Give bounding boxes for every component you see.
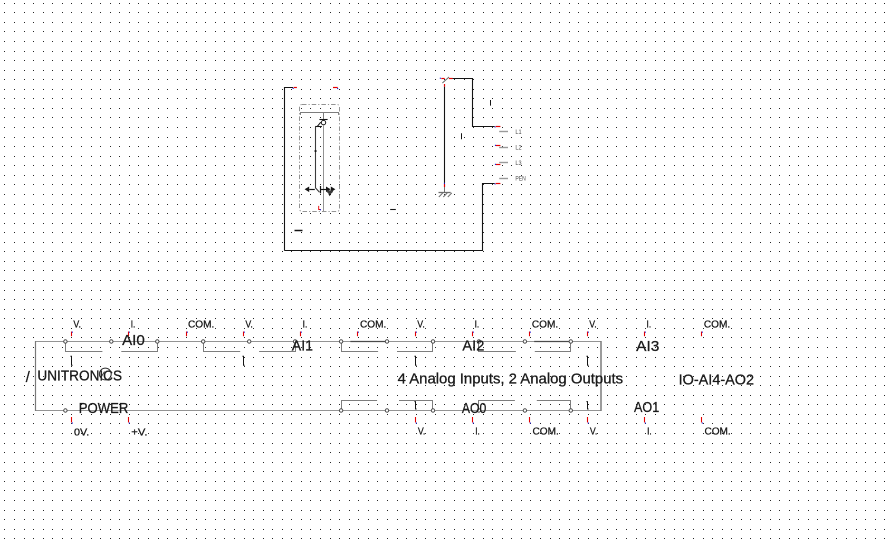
connection point top 9 [530, 332, 531, 337]
connection point top 10 [588, 332, 589, 337]
svg-text:L3: L3 [515, 160, 522, 167]
ground (earth symbol) [439, 193, 452, 198]
svg-text:V.: V. [590, 427, 598, 438]
svg-text:AI2: AI2 [462, 339, 484, 355]
node dot blue W3 start [440, 78, 441, 79]
svg-text:COM.: COM. [188, 319, 214, 330]
svg-text:I.: I. [131, 319, 136, 330]
dark wire segment AI2 [350, 341, 386, 343]
connection point top 5 [301, 332, 302, 337]
connection point top 12 [702, 332, 703, 337]
wire W4 earth drop [444, 87, 446, 183]
breaker enclosure Q1 (dash-dot box) [300, 105, 340, 212]
node stub red W3 end [496, 126, 501, 128]
pin node top 7 [339, 340, 342, 343]
net label L3 [495, 160, 522, 167]
svg-text:COM.: COM. [533, 427, 559, 438]
terminal bracket AO0 right [399, 401, 433, 410]
terminal bracket AI0 right [121, 343, 157, 352]
node stub red R2 [333, 87, 338, 89]
svg-text:AO1: AO1 [634, 400, 659, 416]
svg-text:I.: I. [647, 319, 652, 330]
node dot blue R2 [337, 88, 338, 89]
connection point top 7 [416, 332, 417, 337]
pin node top 9 [431, 340, 434, 343]
label L blue dot [320, 209, 321, 210]
pin designator tick top 7 [414, 356, 416, 365]
connection point bottom COM. [702, 417, 703, 424]
svg-text:UNITRONICS: UNITRONICS [37, 368, 122, 384]
module outline bottom edge [35, 410, 602, 412]
lever top bar [315, 126, 322, 128]
node stub red W3 right [449, 78, 453, 80]
tick I lower [461, 133, 463, 139]
connection point bottom I. [645, 417, 646, 424]
wire W3 L1 feed [453, 79, 495, 127]
terminal bracket AI3 right [535, 343, 571, 352]
svg-text:AO0: AO0 [462, 401, 486, 417]
pin node bottom 1 [339, 409, 342, 412]
connection point bottom V. [416, 417, 417, 424]
connection point bottom V. [588, 417, 589, 424]
pivot circle [321, 120, 325, 124]
terminal bracket AI1 right [259, 343, 295, 352]
svg-text:V.: V. [73, 319, 81, 330]
pin node top 8 [385, 340, 388, 343]
module outline top edge [35, 341, 602, 343]
svg-text:POWER: POWER [79, 401, 129, 417]
pin node bottom 2 [385, 409, 388, 412]
net label PEN [499, 175, 526, 182]
pin node top 3 [156, 340, 159, 343]
connection point bottom COM. [530, 417, 531, 424]
connection point bottom I. [473, 417, 474, 424]
node dot blue W2 end [495, 183, 496, 184]
svg-text:AI1: AI1 [292, 339, 313, 355]
pin node top 4 [202, 340, 205, 343]
connection point top 1 [72, 332, 73, 337]
svg-text:0V.: 0V. [74, 428, 89, 439]
node stub red W2 end [496, 183, 501, 185]
terminal bracket AI3 left [479, 343, 516, 352]
pin node top 12 [569, 340, 572, 343]
svg-text:L2: L2 [515, 145, 522, 152]
pin node top 2 [110, 340, 113, 343]
terminal bracket AO1 right [537, 401, 571, 410]
node dot blue W3 end [495, 126, 496, 127]
pin designator tick top 1 [70, 356, 72, 365]
connection point top 2 [129, 332, 130, 337]
pin node top 11 [523, 340, 526, 343]
node stub red W4 bottom [444, 184, 446, 187]
junction slash [442, 77, 449, 83]
contact slash [317, 122, 321, 126]
net label L1 [499, 129, 522, 136]
wire W1 feed corner [285, 88, 294, 251]
svg-text:4 Analog Inputs, 2 Analog Outp: 4 Analog Inputs, 2 Analog Outputs [398, 371, 623, 387]
pin designator tick bottom 10 [586, 402, 588, 409]
pin node top 5 [248, 340, 251, 343]
bus staple [301, 113, 339, 115]
pin node top 10 [477, 340, 480, 343]
pin designator tick bottom 7 [414, 402, 416, 409]
dash mark right [390, 209, 396, 211]
pin designator tick top 4 [242, 356, 244, 365]
lever arm [316, 126, 320, 192]
connection point top 4 [244, 332, 245, 337]
pin node bottom 3 [431, 409, 434, 412]
node stub red R1 [294, 87, 297, 89]
pin node top 1 [64, 340, 67, 343]
terminal bracket AO1 left [479, 401, 515, 410]
connection point top 6 [358, 332, 359, 337]
node stub red W4 top [444, 84, 446, 87]
svg-text:V.: V. [589, 319, 597, 330]
connection point top 3 [187, 332, 188, 337]
svg-text:IO-AI4-AO2: IO-AI4-AO2 [679, 373, 755, 389]
connection point top 11 [645, 332, 646, 337]
svg-text:I.: I. [475, 319, 480, 330]
overlap inner mark [102, 372, 105, 377]
tick I upper [490, 100, 492, 106]
svg-text:I.: I. [647, 427, 652, 438]
svg-text:+V.: +V. [131, 428, 147, 439]
terminal bracket AI1 left [204, 343, 241, 352]
pin node bottom 5 [523, 409, 526, 412]
pin node bottom 4 [477, 409, 480, 412]
node stub red W3 left [441, 78, 444, 80]
earth lead [444, 187, 446, 192]
svg-text:AI0: AI0 [122, 333, 145, 349]
node dot blue R1 [293, 88, 294, 89]
module outline right edge [600, 341, 602, 411]
svg-text:COM.: COM. [704, 427, 730, 438]
connection point bottom +V. [129, 417, 130, 424]
pin designator tick top 10 [586, 356, 588, 365]
pin node top 6 [293, 340, 296, 343]
svg-text:L1: L1 [515, 129, 522, 136]
terminal bracket AO0 left [342, 401, 378, 410]
overlap circle glyph [99, 368, 111, 380]
connection point top 8 [473, 332, 474, 337]
terminal bracket AI2 left [342, 343, 379, 352]
dark wire segment AI3 [534, 341, 571, 343]
stem [323, 112, 325, 120]
wire W2 PEN loop [285, 184, 495, 251]
svg-text:V.: V. [245, 319, 253, 330]
svg-text:COM.: COM. [360, 319, 386, 330]
fixed contact bar [319, 119, 327, 121]
dash mark lower-left [295, 230, 303, 232]
net label L2 [495, 145, 522, 152]
through conductor [323, 125, 325, 212]
label L red [319, 206, 321, 210]
svg-text:COM.: COM. [704, 319, 730, 330]
svg-text:V.: V. [417, 319, 425, 330]
withdraw arrow left [305, 187, 315, 193]
terminal bracket AI2 right [397, 343, 433, 352]
pin node bottom 6 [569, 409, 572, 412]
node dot blue W4 bottom [444, 183, 445, 184]
svg-text:PEN: PEN [515, 175, 526, 182]
lever dot [315, 150, 317, 152]
module outline left edge [35, 341, 37, 411]
withdraw contact right [320, 186, 335, 196]
svg-text:I.: I. [303, 319, 308, 330]
connection point bottom 0V. [72, 417, 73, 424]
svg-text:COM.: COM. [532, 319, 558, 330]
svg-text:AI3: AI3 [636, 339, 659, 355]
pin node power 0V [64, 409, 67, 412]
svg-text:I.: I. [475, 427, 480, 438]
terminal bracket AI0 left [66, 343, 103, 352]
svg-text:V.: V. [418, 427, 426, 438]
